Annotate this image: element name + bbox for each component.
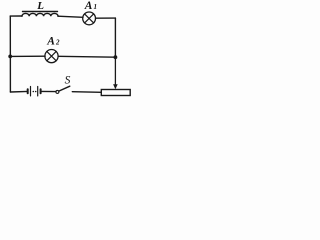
svg-text:A1: A1 (84, 0, 97, 12)
svg-text:A2: A2 (46, 36, 60, 48)
rheostat slider arrow shaft (114, 57, 116, 84)
junction dot left (middle rail / left rail) (8, 55, 12, 59)
rheostat slider arrow head (113, 84, 118, 89)
wire left rail (9, 16, 11, 92)
lamp A2 cross (47, 51, 56, 60)
switch S pivot circle (56, 90, 59, 93)
wire bottom rail battery-to-switch segment (41, 90, 56, 92)
wire top rail right segment (96, 17, 116, 19)
battery cell 2 short plate (40, 89, 42, 93)
battery cell 1 short plate (27, 89, 29, 93)
wire right rail (114, 18, 116, 57)
svg-text:L: L (36, 0, 44, 12)
wire middle rail right segment (58, 55, 115, 58)
inductor L core bar (23, 11, 58, 13)
wire bottom rail switch-to-resistor segment (72, 91, 101, 94)
resistor R box (101, 90, 130, 96)
wire bottom rail left segment (10, 90, 27, 93)
lamp A1 cross (85, 14, 94, 23)
wire top rail middle segment (58, 16, 83, 17)
wire top rail left segment (10, 15, 22, 17)
lamp A1 circle (83, 12, 96, 25)
switch S lever (59, 86, 70, 91)
inductor L coil humps (22, 13, 58, 16)
lamp A2 circle (45, 50, 58, 63)
svg-text:S: S (65, 75, 71, 87)
battery cell 2 tall plate (37, 87, 39, 96)
battery dots between cells (33, 91, 35, 93)
junction dot right (middle rail / right rail) (114, 55, 118, 59)
wire middle rail left segment (10, 55, 45, 57)
battery cell 1 tall plate (30, 87, 32, 96)
